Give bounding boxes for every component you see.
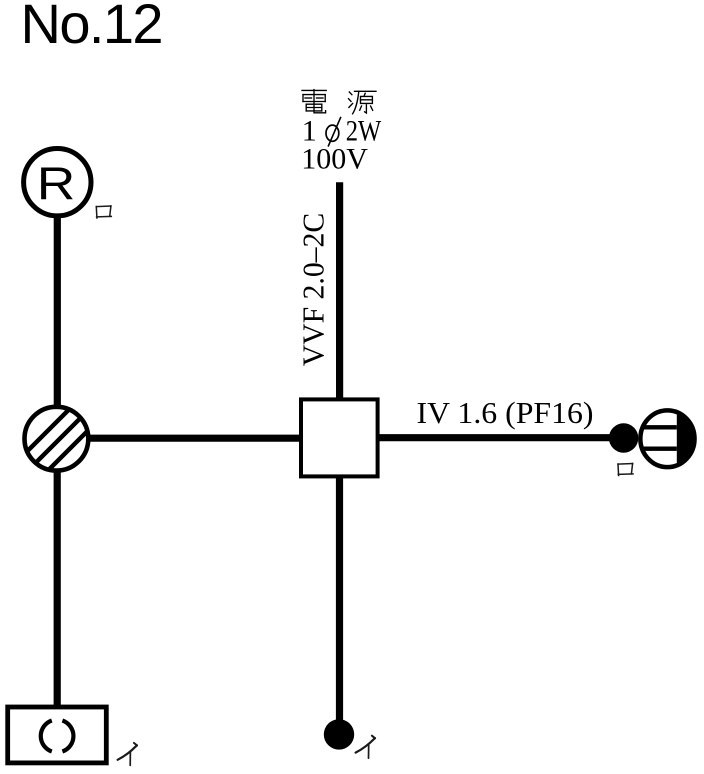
wire: power feed vertical into outlet box: [336, 182, 343, 400]
label i (katakana) near bottom fixture: [118, 743, 138, 766]
svg-text:VVF 2.0–2C: VVF 2.0–2C: [296, 213, 331, 367]
wire: outlet box to receptacle horizontal: [378, 434, 622, 441]
wire: joint box to outlet box horizontal: [88, 435, 301, 442]
terminal dot at bottom (switch leg): [324, 719, 354, 749]
wire: outlet box bottom vertical to terminal dot: [336, 477, 343, 728]
wire: joint box to bottom fixture vertical: [54, 468, 61, 708]
label i (katakana) near bottom dot: [356, 736, 376, 759]
exposed receptacle (wall outlet symbol): [636, 405, 702, 473]
svg-text:IV 1.6 (PF16): IV 1.6 (PF16): [417, 395, 594, 430]
fixture parentheses ( ) symbol: [41, 721, 74, 752]
terminal dot at receptacle: [609, 423, 638, 452]
label ro (katakana) near receptacle: [618, 464, 633, 476]
kanji 電: [302, 90, 326, 113]
lamp receptacle R: [24, 149, 91, 216]
outlet box (square): [301, 399, 378, 476]
svg-text:100V: 100V: [301, 143, 368, 176]
svg-text:R: R: [37, 158, 76, 210]
kanji 源: [349, 91, 377, 114]
label ro (katakana) near R: [96, 206, 111, 218]
bottom fixture box (rectangle): [8, 707, 107, 763]
wire: lamp receptacle to joint box vertical: [54, 214, 61, 410]
VVF joint box (hatched circle): [8, 371, 108, 511]
phi symbol: [326, 125, 339, 141]
svg-text:No.12: No.12: [21, 0, 162, 55]
